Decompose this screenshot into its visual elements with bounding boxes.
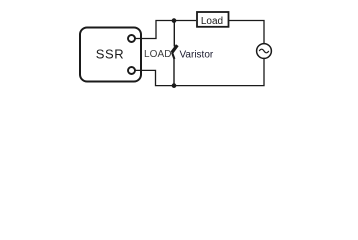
node junction bottom of varistor xyxy=(172,83,177,88)
node junction top of varistor xyxy=(172,18,177,23)
AC source V1 xyxy=(257,44,272,59)
wire varistor branch top xyxy=(173,21,175,47)
wire source to bottom bus xyxy=(135,58,264,85)
terminal T2 (bottom output) xyxy=(128,67,135,74)
wire load to source xyxy=(229,21,264,44)
SSR U1 xyxy=(80,28,141,82)
svg-text:LOAD: LOAD xyxy=(144,49,172,60)
svg-text:Varistor: Varistor xyxy=(180,50,214,61)
svg-text:SSR: SSR xyxy=(96,47,125,62)
Load box xyxy=(197,12,229,27)
svg-text:Load: Load xyxy=(201,16,223,27)
terminal T1 (top output) xyxy=(128,35,135,42)
varistor RV1 xyxy=(172,45,177,52)
wire top terminal to riser xyxy=(135,21,196,39)
wire varistor branch bottom xyxy=(173,59,175,86)
